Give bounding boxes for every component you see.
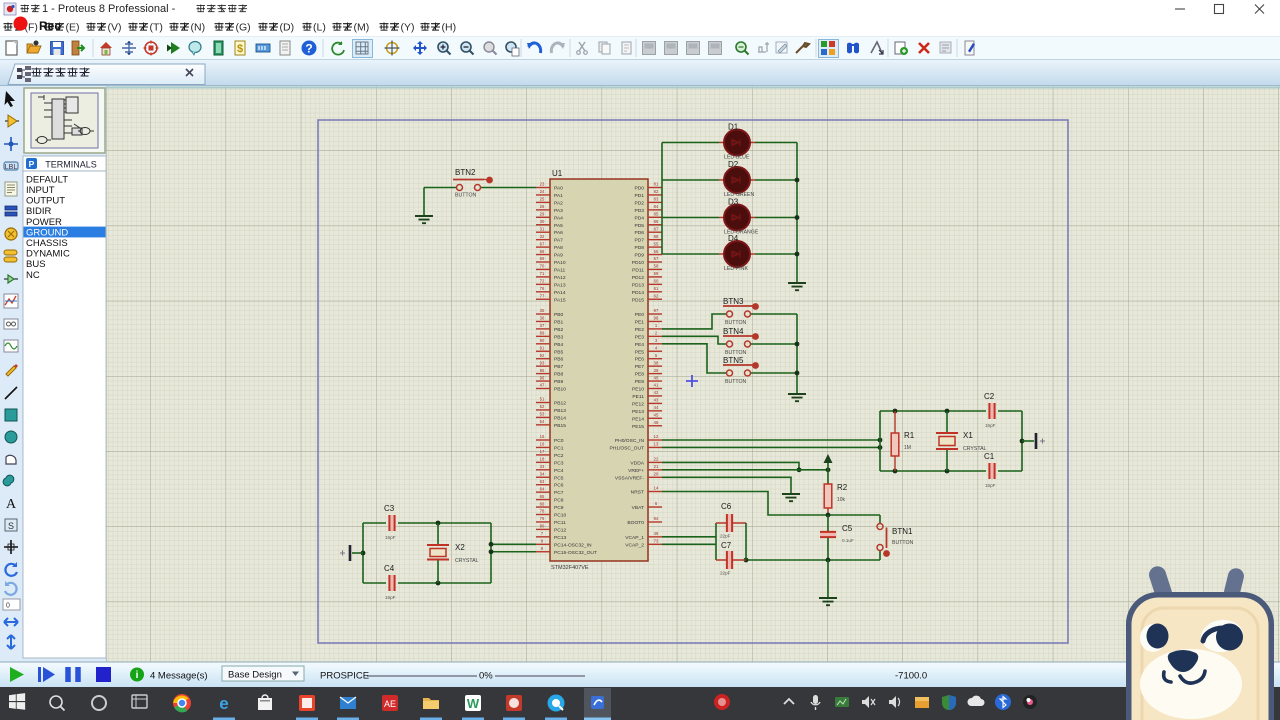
svg-text:43: 43 bbox=[654, 398, 659, 403]
svg-text:33: 33 bbox=[540, 464, 545, 469]
svg-text:59: 59 bbox=[654, 271, 659, 276]
wire: U1 pin to BTN3 bbox=[662, 314, 726, 329]
svg-text:15pF: 15pF bbox=[985, 423, 996, 428]
svg-text:PB7: PB7 bbox=[554, 364, 564, 370]
svg-text:30: 30 bbox=[540, 219, 545, 224]
svg-text:STM32F407VE: STM32F407VE bbox=[551, 565, 589, 571]
svg-text:C3: C3 bbox=[384, 504, 395, 513]
svg-text:25: 25 bbox=[540, 197, 545, 202]
svg-text:PB13: PB13 bbox=[554, 408, 566, 414]
svg-text:46: 46 bbox=[654, 420, 659, 425]
svg-text:PE8: PE8 bbox=[635, 372, 645, 378]
svg-text:18: 18 bbox=[540, 457, 545, 462]
svg-text:X2: X2 bbox=[455, 543, 465, 552]
svg-text:PD14: PD14 bbox=[632, 290, 645, 296]
svg-text:56: 56 bbox=[654, 249, 659, 254]
svg-text:PB4: PB4 bbox=[554, 342, 564, 348]
svg-text:22pF: 22pF bbox=[720, 571, 731, 576]
svg-text:38: 38 bbox=[654, 360, 659, 365]
svg-text:PD10: PD10 bbox=[632, 260, 645, 266]
push button BTN5 bbox=[723, 356, 759, 385]
svg-text:62: 62 bbox=[654, 293, 659, 298]
capacitor C6 22pF bbox=[716, 502, 746, 539]
svg-text:PE13: PE13 bbox=[632, 409, 644, 415]
svg-text:PH1/OSC_OUT: PH1/OSC_OUT bbox=[609, 445, 644, 451]
svg-text:PA15: PA15 bbox=[554, 297, 566, 303]
svg-text:PA2: PA2 bbox=[554, 200, 563, 206]
svg-text:PC4: PC4 bbox=[554, 468, 564, 474]
svg-text:C2: C2 bbox=[984, 392, 995, 401]
wire: VCAP_2 to C7 bbox=[662, 543, 716, 545]
svg-text:(Y): (Y) bbox=[401, 22, 415, 34]
svg-text:X1: X1 bbox=[963, 431, 973, 440]
svg-text:PC6: PC6 bbox=[554, 483, 564, 489]
wire: LED cathode bus vertical bbox=[795, 143, 800, 284]
svg-text:VCAP_2: VCAP_2 bbox=[625, 542, 644, 548]
svg-text:(M): (M) bbox=[354, 22, 370, 34]
svg-text:1 - Proteus 8 Professional -: 1 - Proteus 8 Professional - bbox=[42, 3, 176, 15]
svg-text:98: 98 bbox=[654, 316, 659, 321]
svg-text:70: 70 bbox=[540, 264, 545, 269]
svg-text:PE2: PE2 bbox=[635, 327, 645, 333]
svg-text:(E): (E) bbox=[66, 22, 80, 34]
svg-text:(N): (N) bbox=[191, 22, 206, 34]
svg-text:60: 60 bbox=[654, 279, 659, 284]
svg-text:PE9: PE9 bbox=[635, 379, 645, 385]
svg-text:42: 42 bbox=[654, 390, 659, 395]
wire: row to D4 bbox=[662, 253, 797, 255]
svg-text:D2: D2 bbox=[728, 160, 739, 169]
cursor crosshair bbox=[686, 375, 698, 387]
svg-text:PE6: PE6 bbox=[635, 357, 645, 363]
svg-text:82: 82 bbox=[654, 189, 659, 194]
svg-text:PC7: PC7 bbox=[554, 490, 564, 496]
svg-text:LBL: LBL bbox=[5, 164, 18, 171]
svg-text:52: 52 bbox=[540, 404, 545, 409]
svg-text:49: 49 bbox=[654, 531, 659, 536]
svg-text:22pF: 22pF bbox=[720, 534, 731, 539]
svg-text:80: 80 bbox=[540, 524, 545, 529]
svg-text:32: 32 bbox=[540, 234, 545, 239]
svg-text:44: 44 bbox=[654, 405, 659, 410]
LED D1 LED-BLUE bbox=[719, 123, 755, 161]
svg-text:73: 73 bbox=[654, 539, 659, 544]
svg-text:PB14: PB14 bbox=[554, 415, 566, 421]
svg-text:94: 94 bbox=[654, 516, 659, 521]
svg-text:PD9: PD9 bbox=[634, 253, 644, 259]
svg-text:PH0/OSC_IN: PH0/OSC_IN bbox=[615, 438, 645, 444]
svg-text:PD8: PD8 bbox=[634, 245, 644, 251]
wire: C6/C7 left bracket bbox=[715, 523, 717, 560]
capacitor C4 15pF bbox=[384, 564, 396, 600]
svg-text:10k: 10k bbox=[837, 497, 846, 503]
svg-text:VDDA: VDDA bbox=[630, 460, 644, 466]
svg-text:PC5: PC5 bbox=[554, 475, 564, 481]
svg-text:PD3: PD3 bbox=[634, 208, 644, 214]
power arrow VCC bbox=[824, 454, 833, 484]
svg-text:45: 45 bbox=[654, 413, 659, 418]
svg-text:-7100.0: -7100.0 bbox=[895, 671, 927, 682]
svg-text:PC0: PC0 bbox=[554, 438, 564, 444]
svg-text:91: 91 bbox=[540, 345, 545, 350]
crystal X1 bbox=[936, 411, 987, 471]
svg-text:4 Message(s): 4 Message(s) bbox=[150, 671, 208, 682]
svg-text:PE0: PE0 bbox=[635, 312, 645, 318]
svg-text:PE12: PE12 bbox=[632, 401, 644, 407]
svg-text:PD6: PD6 bbox=[634, 230, 644, 236]
svg-text:PC13: PC13 bbox=[554, 535, 567, 541]
svg-text:PA11: PA11 bbox=[554, 267, 566, 273]
wire: BTN4 to ground bus bbox=[751, 343, 797, 345]
svg-text:92: 92 bbox=[540, 353, 545, 358]
wire: U1 pin to BTN5 bbox=[662, 344, 726, 373]
svg-text:CRYSTAL: CRYSTAL bbox=[455, 558, 479, 564]
svg-text:GROUND: GROUND bbox=[26, 227, 68, 238]
wire: U1 pin to BTN4 bbox=[662, 336, 726, 344]
svg-text:90: 90 bbox=[540, 338, 545, 343]
svg-text:C7: C7 bbox=[721, 541, 732, 550]
svg-text:NC: NC bbox=[26, 270, 40, 281]
svg-text:15: 15 bbox=[540, 434, 545, 439]
push button BTN1 bbox=[877, 515, 913, 560]
wire: BTN3 to ground bus bbox=[751, 313, 797, 315]
svg-text:PC11: PC11 bbox=[554, 520, 566, 526]
svg-text:U1: U1 bbox=[552, 169, 563, 178]
svg-text:PE15: PE15 bbox=[632, 424, 644, 430]
svg-text:PA7: PA7 bbox=[554, 238, 563, 244]
svg-text:(L): (L) bbox=[313, 22, 326, 34]
wire: LED input bus vertical from MCU PD pins bbox=[661, 143, 663, 255]
svg-text:15pF: 15pF bbox=[385, 595, 396, 600]
svg-text:13: 13 bbox=[654, 442, 659, 447]
svg-text:PB10: PB10 bbox=[554, 387, 566, 393]
svg-text:BTN2: BTN2 bbox=[455, 168, 476, 177]
svg-text:DYNAMIC: DYNAMIC bbox=[26, 249, 70, 260]
svg-text:PD15: PD15 bbox=[632, 297, 645, 303]
svg-text:0.1uF: 0.1uF bbox=[842, 538, 854, 543]
wire: button ground bus vertical bbox=[795, 314, 800, 394]
wire: bottom bus to ground bbox=[827, 560, 829, 598]
svg-text:PA12: PA12 bbox=[554, 275, 566, 281]
svg-text:PD0: PD0 bbox=[634, 186, 644, 192]
LED D4 LED-PINK bbox=[719, 234, 755, 272]
svg-text:PC15-OSC32_OUT: PC15-OSC32_OUT bbox=[554, 550, 597, 556]
svg-text:PC9: PC9 bbox=[554, 505, 564, 511]
svg-text:79: 79 bbox=[540, 516, 545, 521]
wire: BTN5 to ground bus bbox=[751, 372, 797, 374]
svg-text:58: 58 bbox=[654, 264, 659, 269]
svg-text:PD7: PD7 bbox=[634, 238, 644, 244]
svg-text:(T): (T) bbox=[150, 22, 163, 34]
svg-text:85: 85 bbox=[654, 212, 659, 217]
svg-text:(G): (G) bbox=[236, 22, 251, 34]
svg-text:NRST: NRST bbox=[631, 490, 644, 496]
svg-text:17: 17 bbox=[540, 449, 545, 454]
svg-text:69: 69 bbox=[540, 256, 545, 261]
capacitor C5 0.1uF bbox=[820, 515, 854, 560]
svg-text:86: 86 bbox=[654, 219, 659, 224]
svg-text:PC8: PC8 bbox=[554, 498, 564, 504]
wire: BTN2 left to ground bbox=[424, 188, 456, 217]
wire: X2 loop to U1 PC14 PC15 bbox=[489, 542, 536, 554]
svg-text:C1: C1 bbox=[984, 452, 995, 461]
push button BTN3 bbox=[723, 297, 759, 326]
svg-text:C5: C5 bbox=[842, 524, 853, 533]
svg-text:e: e bbox=[219, 694, 228, 713]
svg-text:PE4: PE4 bbox=[635, 342, 645, 348]
svg-text:Base Design: Base Design bbox=[228, 670, 282, 681]
svg-text:W: W bbox=[467, 696, 480, 711]
svg-text:BTN5: BTN5 bbox=[723, 356, 744, 365]
svg-text:PC2: PC2 bbox=[554, 453, 564, 459]
svg-text:$: $ bbox=[237, 43, 243, 55]
svg-text:63: 63 bbox=[540, 479, 545, 484]
wire: row to D1 bbox=[662, 142, 797, 144]
capacitor C3 15pF bbox=[384, 504, 396, 540]
svg-text:71: 71 bbox=[540, 271, 545, 276]
wire: U1 PH1/OSC_OUT to crystal loop bbox=[662, 445, 882, 450]
svg-text:PC14-OSC32_IN: PC14-OSC32_IN bbox=[554, 542, 592, 548]
svg-text:PB1: PB1 bbox=[554, 319, 564, 325]
capacitor C1 15pF bbox=[984, 452, 996, 488]
svg-text:AE: AE bbox=[384, 699, 396, 709]
svg-text:20: 20 bbox=[654, 472, 659, 477]
svg-text:81: 81 bbox=[654, 182, 659, 187]
schematic sheet border bbox=[318, 120, 1068, 643]
svg-text:TERMINALS: TERMINALS bbox=[45, 160, 97, 170]
svg-text:VCAP_1: VCAP_1 bbox=[625, 535, 644, 541]
svg-text:29: 29 bbox=[540, 212, 545, 217]
svg-text:S: S bbox=[8, 521, 14, 531]
svg-text:?: ? bbox=[305, 42, 312, 56]
svg-text:PD5: PD5 bbox=[634, 223, 644, 229]
svg-text:C6: C6 bbox=[721, 502, 732, 511]
resistor R2 10k bbox=[824, 483, 848, 515]
capacitor C2 15pF bbox=[984, 392, 996, 428]
svg-text:76: 76 bbox=[540, 286, 545, 291]
crystal X2 bbox=[427, 523, 479, 583]
svg-text:VREF+: VREF+ bbox=[628, 468, 644, 474]
svg-text:22: 22 bbox=[654, 457, 659, 462]
svg-text:0: 0 bbox=[6, 603, 10, 610]
svg-text:PE5: PE5 bbox=[635, 349, 645, 355]
wire: U1 PH0/OSC_IN to crystal loop bbox=[662, 438, 882, 443]
svg-text:R1: R1 bbox=[904, 431, 915, 440]
svg-text:PC12: PC12 bbox=[554, 527, 567, 533]
svg-text:61: 61 bbox=[654, 286, 659, 291]
svg-text:i: i bbox=[136, 670, 139, 681]
svg-text:35: 35 bbox=[540, 308, 545, 313]
svg-text:14: 14 bbox=[654, 486, 659, 491]
svg-text:D3: D3 bbox=[728, 198, 739, 207]
svg-text:PD2: PD2 bbox=[634, 200, 644, 206]
svg-text:(H): (H) bbox=[442, 22, 457, 34]
wire: C6/C7 right bracket bbox=[745, 523, 747, 560]
svg-text:(V): (V) bbox=[108, 22, 122, 34]
svg-text:55: 55 bbox=[654, 241, 659, 246]
svg-text:PA3: PA3 bbox=[554, 208, 563, 214]
svg-text:PB6: PB6 bbox=[554, 357, 564, 363]
svg-text:78: 78 bbox=[540, 509, 545, 514]
svg-text:LED-PINK: LED-PINK bbox=[724, 266, 748, 272]
LED D3 LED-ORANGE bbox=[719, 198, 759, 236]
svg-text:97: 97 bbox=[654, 308, 659, 313]
svg-text:PB8: PB8 bbox=[554, 372, 564, 378]
mascot overlay bbox=[1126, 564, 1274, 720]
svg-text:PD4: PD4 bbox=[634, 215, 644, 221]
svg-text:CHASSIS: CHASSIS bbox=[26, 238, 68, 249]
wire: VDDA to VREF+ join bbox=[662, 462, 801, 472]
svg-text:23: 23 bbox=[540, 182, 545, 187]
svg-text:PA10: PA10 bbox=[554, 260, 566, 266]
svg-text:PD13: PD13 bbox=[632, 282, 645, 288]
svg-text:95: 95 bbox=[540, 368, 545, 373]
svg-text:12: 12 bbox=[654, 434, 659, 439]
svg-text:51: 51 bbox=[540, 397, 545, 402]
wire: VREF+ to R2 rail bbox=[662, 467, 830, 472]
wire: VCAP_1 to C6 bbox=[662, 536, 716, 538]
svg-text:POWER: POWER bbox=[26, 217, 62, 228]
svg-text:PA14: PA14 bbox=[554, 290, 566, 296]
svg-text:67: 67 bbox=[540, 241, 545, 246]
svg-text:57: 57 bbox=[654, 256, 659, 261]
svg-text:Rec: Rec bbox=[39, 19, 61, 33]
svg-text:64: 64 bbox=[540, 486, 545, 491]
svg-text:41: 41 bbox=[654, 383, 659, 388]
svg-text:BTN1: BTN1 bbox=[892, 527, 913, 536]
svg-text:PC10: PC10 bbox=[554, 513, 567, 519]
svg-text:PC3: PC3 bbox=[554, 460, 564, 466]
mcu U1 right pins PD/PE/power with pin numbers bbox=[609, 182, 662, 549]
svg-text:84: 84 bbox=[654, 204, 659, 209]
svg-text:PROSPICE: PROSPICE bbox=[320, 671, 369, 682]
svg-text:21: 21 bbox=[654, 464, 659, 469]
capacitor C7 22pF bbox=[716, 541, 746, 576]
svg-text:PE1: PE1 bbox=[635, 319, 645, 325]
svg-text:DEFAULT: DEFAULT bbox=[26, 174, 68, 185]
svg-text:40: 40 bbox=[654, 375, 659, 380]
svg-text:PA1: PA1 bbox=[554, 193, 563, 199]
svg-text:PA13: PA13 bbox=[554, 282, 566, 288]
svg-text:47: 47 bbox=[540, 383, 545, 388]
ground: reset bus bbox=[819, 598, 837, 605]
svg-text:BUTTON: BUTTON bbox=[725, 379, 746, 385]
svg-text:BUS: BUS bbox=[26, 259, 46, 270]
svg-text:54: 54 bbox=[540, 419, 545, 424]
mcu U1 STM32F407VE body bbox=[550, 169, 648, 571]
svg-text:PB15: PB15 bbox=[554, 423, 566, 429]
svg-text:PA0: PA0 bbox=[554, 186, 563, 192]
ground: BTN2 bbox=[415, 216, 433, 223]
svg-text:PB2: PB2 bbox=[554, 327, 564, 333]
svg-text:PB3: PB3 bbox=[554, 334, 564, 340]
svg-text:A: A bbox=[6, 497, 17, 512]
svg-text:PA4: PA4 bbox=[554, 215, 563, 221]
svg-text:BIDIR: BIDIR bbox=[26, 206, 51, 217]
svg-text:(D): (D) bbox=[280, 22, 295, 34]
wire: VSSA to ground bbox=[662, 477, 791, 494]
svg-text:88: 88 bbox=[654, 234, 659, 239]
svg-text:PE14: PE14 bbox=[632, 416, 644, 422]
svg-text:P: P bbox=[29, 159, 35, 169]
svg-text:77: 77 bbox=[540, 293, 545, 298]
svg-text:0%: 0% bbox=[479, 671, 493, 682]
svg-text:PE7: PE7 bbox=[635, 364, 645, 370]
svg-text:BTN3: BTN3 bbox=[723, 297, 744, 306]
LED D2 LED-GREEN bbox=[719, 160, 755, 198]
svg-text:BUTTON: BUTTON bbox=[892, 540, 913, 546]
svg-text:D1: D1 bbox=[728, 123, 739, 132]
svg-text:31: 31 bbox=[540, 226, 545, 231]
svg-text:VBAT: VBAT bbox=[632, 505, 644, 511]
svg-text:PD1: PD1 bbox=[634, 193, 644, 199]
svg-text:39: 39 bbox=[654, 368, 659, 373]
svg-text:BOOT0: BOOT0 bbox=[627, 520, 644, 526]
svg-text:53: 53 bbox=[540, 412, 545, 417]
svg-text:66: 66 bbox=[540, 501, 545, 506]
wire: BTN2 to U1 PA0 bbox=[481, 187, 536, 189]
push button BTN2 bbox=[453, 168, 493, 199]
svg-text:72: 72 bbox=[540, 279, 545, 284]
svg-text:PB12: PB12 bbox=[554, 401, 566, 407]
svg-text:87: 87 bbox=[654, 226, 659, 231]
terminal: X1 loop right bbox=[1022, 433, 1045, 449]
svg-text:PB0: PB0 bbox=[554, 312, 564, 318]
svg-text:BUTTON: BUTTON bbox=[725, 320, 746, 326]
svg-text:68: 68 bbox=[540, 249, 545, 254]
svg-text:BUTTON: BUTTON bbox=[455, 193, 476, 199]
svg-text:65: 65 bbox=[540, 494, 545, 499]
terminal: X2 loop left bbox=[340, 545, 363, 561]
svg-text:PE11: PE11 bbox=[632, 394, 644, 400]
svg-text:INPUT: INPUT bbox=[26, 185, 55, 196]
svg-text:PA6: PA6 bbox=[554, 230, 563, 236]
svg-text:36: 36 bbox=[540, 316, 545, 321]
svg-text:26: 26 bbox=[540, 204, 545, 209]
svg-text:VSSA/VREF-: VSSA/VREF- bbox=[615, 475, 644, 481]
mcu U1 left pins PA/PB/PC with pin numbers bbox=[536, 182, 597, 556]
wire: NRST net bbox=[662, 492, 880, 518]
svg-text:15pF: 15pF bbox=[985, 483, 996, 488]
svg-text:93: 93 bbox=[540, 360, 545, 365]
wire: row to D3 bbox=[662, 217, 797, 219]
svg-text:PE3: PE3 bbox=[635, 334, 645, 340]
svg-text:89: 89 bbox=[540, 331, 545, 336]
svg-text:PC1: PC1 bbox=[554, 445, 564, 451]
svg-text:PA8: PA8 bbox=[554, 245, 563, 251]
resistor R1 1M bbox=[891, 411, 915, 471]
svg-text:37: 37 bbox=[540, 323, 545, 328]
svg-text:PA9: PA9 bbox=[554, 253, 563, 259]
svg-text:1M: 1M bbox=[904, 445, 911, 451]
ground: LED bus bbox=[788, 283, 806, 290]
svg-text:PB5: PB5 bbox=[554, 349, 564, 355]
svg-text:PD11: PD11 bbox=[632, 267, 644, 273]
svg-text:34: 34 bbox=[540, 471, 545, 476]
svg-text:PD12: PD12 bbox=[632, 275, 645, 281]
svg-text:83: 83 bbox=[654, 197, 659, 202]
wire: reset bottom bus bbox=[744, 558, 880, 563]
svg-text:BTN4: BTN4 bbox=[723, 327, 744, 336]
wire: X1 loop frame bbox=[880, 409, 1024, 474]
svg-text:PB9: PB9 bbox=[554, 379, 564, 385]
wire: row to D2 bbox=[662, 179, 797, 181]
svg-text:C4: C4 bbox=[384, 564, 395, 573]
svg-text:24: 24 bbox=[540, 189, 545, 194]
push button BTN4 bbox=[723, 327, 759, 356]
svg-text:OUTPUT: OUTPUT bbox=[26, 196, 65, 207]
svg-text:96: 96 bbox=[540, 375, 545, 380]
